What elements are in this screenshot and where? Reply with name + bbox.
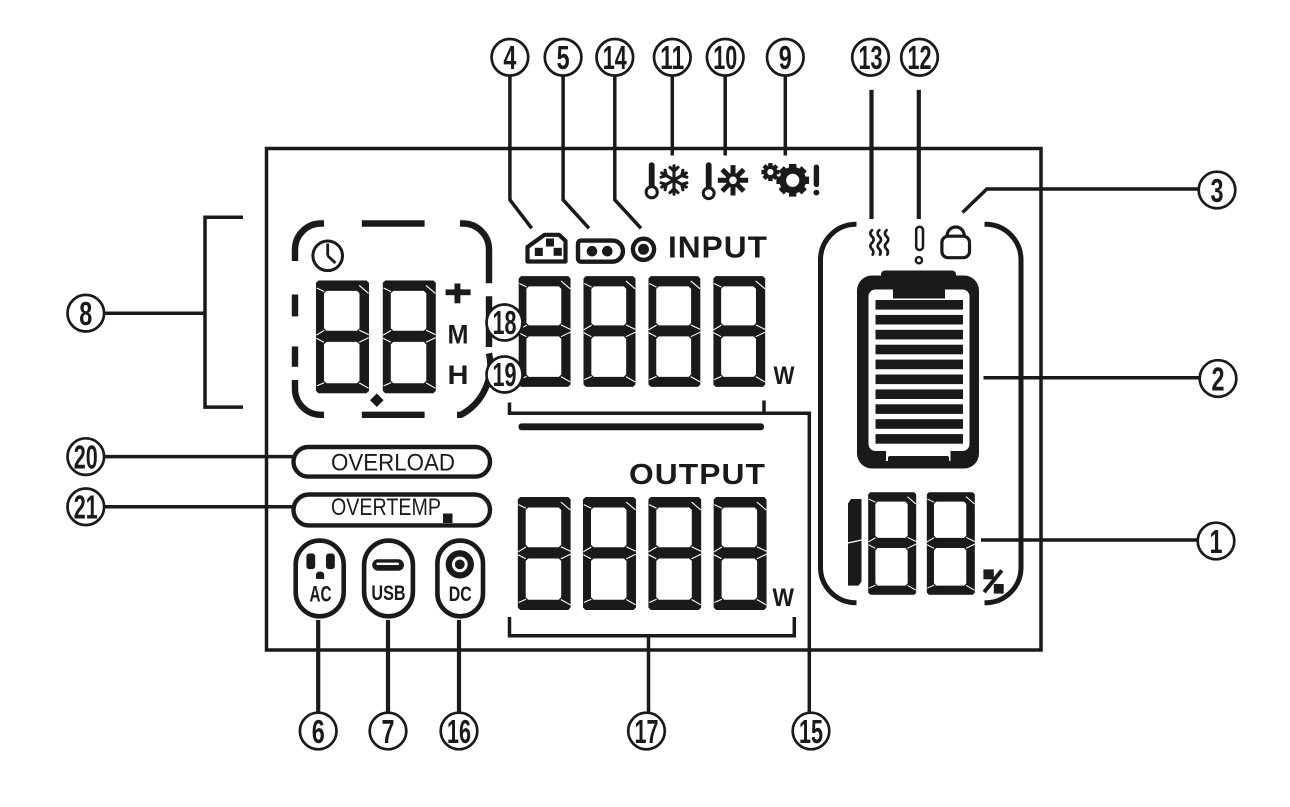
thermometer cold icon — [646, 162, 657, 197]
callout circle 11 — [654, 39, 691, 76]
callout circle 10 — [707, 39, 744, 76]
svg-text:13: 13 — [859, 39, 883, 76]
percent digit 2 — [868, 492, 916, 595]
percent digit 3 — [927, 492, 975, 595]
callout line 20 — [104, 455, 293, 459]
svg-text:9: 9 — [779, 39, 792, 76]
callout circle 21 — [68, 489, 105, 526]
callout circle 12 — [901, 39, 938, 76]
callout circle 6 — [300, 713, 337, 750]
callout line 1 — [981, 538, 1198, 542]
input underline bracket and callout line 15 — [510, 401, 810, 713]
svg-text:5: 5 — [557, 39, 570, 76]
svg-text:OVERTEMP: OVERTEMP — [331, 494, 441, 521]
callout line 4 — [510, 76, 532, 229]
svg-text:10: 10 — [713, 39, 737, 76]
output digit 3 — [648, 497, 701, 610]
callout line 14 — [615, 76, 641, 229]
output digit 4 — [714, 497, 767, 610]
callout line 11 — [671, 76, 675, 156]
input digit 3 — [648, 276, 700, 387]
svg-text:3: 3 — [1211, 172, 1224, 209]
svg-text:7: 7 — [382, 713, 395, 750]
svg-text:14: 14 — [603, 39, 627, 76]
svg-text:W: W — [774, 362, 795, 390]
sun icon — [718, 165, 748, 195]
svg-text:2: 2 — [1212, 360, 1225, 397]
svg-text:INPUT: INPUT — [668, 229, 768, 264]
input thick bar — [519, 423, 765, 430]
callout line 3 — [963, 189, 1199, 213]
battery icon — [857, 271, 979, 469]
callout circle 1 — [1198, 523, 1235, 560]
callout circle 15 — [793, 713, 830, 750]
input digit 2 — [584, 276, 636, 387]
AC input plug icon — [528, 235, 566, 262]
callout line 13 — [869, 90, 873, 219]
battery section border right — [985, 224, 1022, 603]
output digit 1 — [518, 497, 571, 610]
callout circle 7 — [370, 713, 407, 750]
svg-text:11: 11 — [660, 39, 684, 76]
gear small icon — [761, 163, 779, 181]
percent sign — [983, 569, 1003, 593]
callout line 7 — [386, 620, 390, 713]
callout circle 9 — [767, 39, 804, 76]
callout line 5 — [563, 76, 589, 229]
timer dashed border — [295, 224, 490, 415]
OVERTEMP pill — [294, 494, 491, 525]
svg-text:M: M — [448, 320, 469, 350]
callout circle 13 — [852, 39, 889, 76]
output underline bracket and callout line 17 — [510, 617, 795, 712]
timer digit 1 — [316, 280, 369, 393]
svg-text:8: 8 — [79, 295, 92, 332]
svg-text:OVERLOAD: OVERLOAD — [331, 450, 455, 477]
timer decimal point — [370, 393, 384, 407]
LCD frame — [267, 149, 1042, 651]
OVERLOAD pill — [294, 447, 491, 477]
snowflake icon — [660, 166, 689, 194]
callout circle 19 — [487, 356, 523, 393]
callout line 6 — [316, 620, 320, 713]
svg-text:21: 21 — [74, 489, 98, 526]
callout circle 3 — [1199, 172, 1236, 209]
svg-text:4: 4 — [503, 39, 516, 76]
callout line 9 — [784, 76, 788, 156]
battery section border left — [821, 224, 857, 603]
callout circle 8 — [68, 295, 105, 332]
svg-text:USB: USB — [371, 581, 405, 605]
clock icon — [313, 241, 343, 271]
input digit 1 — [519, 276, 571, 387]
callout circle 17 — [628, 713, 665, 750]
USB output icon — [364, 541, 413, 617]
callout line 10 — [723, 76, 727, 156]
timer digit 2 — [383, 280, 436, 393]
gear large icon — [776, 164, 809, 197]
output digit 2 — [583, 497, 636, 610]
svg-text:20: 20 — [74, 438, 98, 475]
callout line 2 — [984, 376, 1200, 380]
callout line 16 — [457, 620, 461, 713]
gear alarm exclamation — [814, 165, 820, 196]
svg-text:6: 6 — [312, 713, 325, 750]
callout circle 4 — [492, 39, 529, 76]
svg-text:17: 17 — [635, 713, 659, 750]
callout line 8 — [104, 311, 205, 315]
svg-text:AC: AC — [310, 582, 332, 607]
svg-text:15: 15 — [799, 713, 823, 750]
plus sign — [446, 284, 471, 304]
callout circle 16 — [441, 713, 478, 750]
heat icon — [870, 230, 888, 254]
svg-text:H: H — [448, 360, 469, 390]
callout circle 2 — [1200, 360, 1237, 397]
callout circle 20 — [68, 438, 105, 475]
svg-text:1: 1 — [1210, 523, 1223, 560]
svg-text:18: 18 — [493, 304, 517, 341]
percent digit 1 — [846, 499, 865, 586]
DC input icon — [633, 239, 654, 260]
callout bracket 8 — [205, 217, 243, 407]
AC output icon — [296, 541, 344, 617]
callout circle 5 — [545, 39, 582, 76]
callout circle 14 — [597, 39, 634, 76]
svg-text:19: 19 — [493, 356, 517, 393]
input digit 4 — [713, 276, 765, 387]
DC output icon — [437, 541, 483, 617]
callout line 21 — [104, 505, 293, 509]
svg-text:DC: DC — [449, 582, 472, 606]
thermometer hot icon — [703, 162, 714, 198]
exclamation warning icon — [916, 227, 923, 264]
svg-text:12: 12 — [908, 39, 932, 76]
svg-text:16: 16 — [447, 713, 471, 750]
svg-text:W: W — [773, 584, 795, 612]
lock icon — [942, 227, 970, 258]
battery charge input icon — [578, 241, 623, 262]
svg-text:OUTPUT: OUTPUT — [629, 459, 766, 491]
callout circle 18 — [487, 304, 523, 341]
callout line 12 — [917, 90, 921, 219]
